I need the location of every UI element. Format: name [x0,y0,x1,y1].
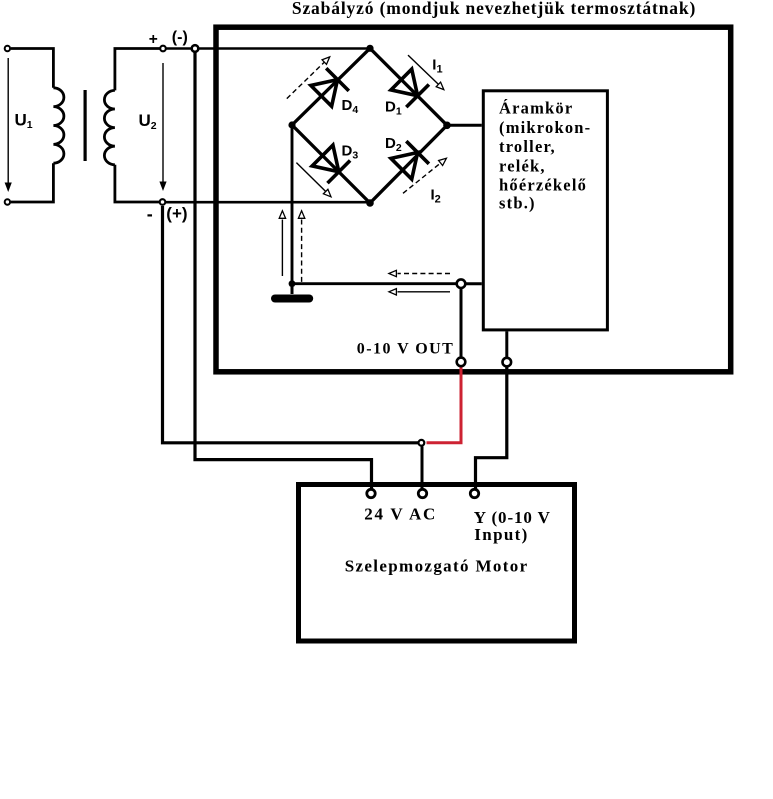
wire out node to circuit box [466,282,482,285]
circuit box U-aramkor [483,91,607,330]
arrow solid along D3 [296,163,326,193]
svg-text:24 V AC: 24 V AC [364,505,437,524]
svg-text:Szelepmozgató Motor: Szelepmozgató Motor [345,557,529,576]
arrow dashed left above wire [398,273,451,275]
inductor L2 secondary coil [104,90,115,164]
terminal circle border out [457,358,466,367]
diode D3 [311,144,350,183]
arrow dashed I2 [403,162,442,193]
bridge diamond wires [292,48,447,203]
wire stub to motor terminal B [421,446,424,488]
inductor L1 primary coil [53,88,64,163]
svg-text:stb.): stb.) [499,194,536,213]
arrow U2 [162,63,164,183]
wire bridge left node down to ground junction [291,125,294,284]
svg-text:(mikrokon-: (mikrokon- [499,118,591,137]
svg-text:Szabályzó (mondjuk nevezhetjük: Szabályzó (mondjuk nevezhetjük termosztá… [292,0,696,18]
node right bridge [443,122,451,130]
terminal circle primary bottom [5,199,10,204]
wire border terminal 2 down to Y input [476,367,507,490]
motor box [299,485,575,642]
arrow I1 [408,55,440,85]
wire bottom rail to bridge [166,201,370,204]
motor terminal B [418,489,426,497]
terminal circle secondary bottom [160,199,166,205]
diode D4 [310,68,349,107]
svg-text:(+): (+) [166,204,187,223]
diode D1 [390,68,429,107]
arrow up solid [281,220,283,277]
ground junction node [289,280,296,287]
terminal circle minus node [192,45,199,52]
svg-text:hőérzékelő: hőérzékelő [499,175,587,194]
arrow dashed along D4 [287,62,325,99]
wire circuit box bottom to border terminal 2 [505,331,508,357]
motor terminal C [470,489,478,497]
ground stem [291,284,294,294]
wire drop from (-) circle node [195,52,372,489]
svg-text:+: + [149,31,158,48]
wire top rail to bridge [167,47,371,50]
wire primary loop [11,49,54,203]
svg-text:troller,: troller, [499,137,556,156]
transformer core [84,90,87,161]
terminal circle out node [457,279,466,288]
wire ground junction to out node [292,282,457,285]
node left bridge [288,121,295,128]
arrow U1 [7,58,9,184]
motor terminal A [367,489,375,497]
terminal circle border 2 [503,358,512,367]
wire out node down to border terminal [460,288,463,358]
wire bridge right node to circuit box [447,124,482,127]
svg-text:-: - [147,204,153,224]
red wire 0-10V out [427,366,462,443]
node bottom bridge [366,199,374,207]
regulator box [216,27,731,372]
terminal circle primary top [5,46,10,51]
wire drop from (+) terminal [163,206,419,443]
junction circle red-black [419,440,425,446]
svg-text:(-): (-) [172,29,188,46]
diode D2 [390,141,429,180]
svg-text:relék,: relék, [499,157,546,176]
node top bridge [366,45,373,52]
terminal circle secondary top [160,46,166,52]
arrow solid left below wire [398,291,451,293]
svg-text:Input): Input) [474,525,528,544]
wire secondary loop [115,49,160,203]
ground bar [271,295,313,303]
arrow up dashed [301,220,303,285]
svg-text:Áramkör: Áramkör [499,99,573,118]
svg-text:0-10 V OUT: 0-10 V OUT [357,341,454,358]
